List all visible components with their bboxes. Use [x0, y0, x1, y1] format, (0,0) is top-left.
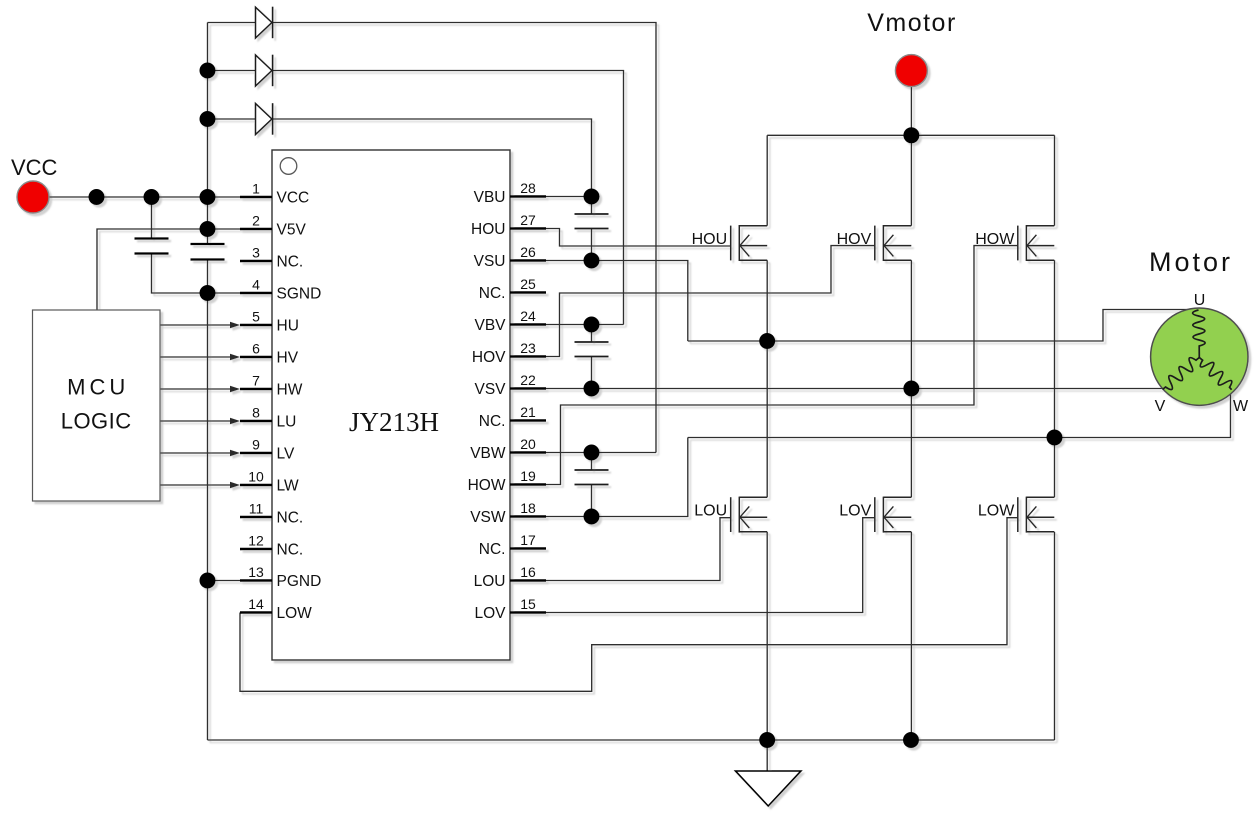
svg-text:NC.: NC.: [277, 542, 304, 559]
svg-text:19: 19: [520, 468, 536, 484]
svg-text:11: 11: [249, 501, 264, 517]
svg-text:VCC: VCC: [277, 190, 310, 207]
svg-text:HOU: HOU: [692, 231, 728, 248]
svg-text:7: 7: [252, 373, 260, 389]
svg-text:V: V: [1155, 398, 1166, 415]
svg-text:NC.: NC.: [277, 510, 304, 527]
svg-text:SGND: SGND: [277, 286, 322, 303]
svg-text:W: W: [1233, 398, 1249, 415]
svg-text:18: 18: [520, 500, 536, 516]
svg-text:LOW: LOW: [978, 503, 1015, 520]
svg-text:HOU: HOU: [471, 221, 505, 238]
svg-text:HV: HV: [277, 350, 299, 367]
svg-text:15: 15: [520, 596, 536, 612]
svg-text:12: 12: [248, 533, 264, 549]
svg-text:LOV: LOV: [474, 605, 506, 622]
svg-text:3: 3: [252, 245, 260, 261]
svg-text:21: 21: [520, 404, 536, 420]
svg-text:V5V: V5V: [277, 222, 307, 239]
svg-text:14: 14: [248, 596, 264, 612]
svg-text:LOGIC: LOGIC: [61, 409, 132, 434]
svg-text:27: 27: [520, 212, 536, 228]
svg-text:VBW: VBW: [470, 445, 506, 462]
svg-text:LOV: LOV: [839, 503, 871, 520]
svg-text:Motor: Motor: [1149, 247, 1233, 277]
svg-text:LW: LW: [277, 478, 299, 495]
svg-text:U: U: [1194, 292, 1206, 309]
svg-text:PGND: PGND: [277, 573, 322, 590]
svg-text:5: 5: [252, 309, 260, 325]
svg-text:NC.: NC.: [277, 254, 304, 271]
svg-text:VSU: VSU: [474, 253, 506, 270]
svg-text:MCU: MCU: [67, 375, 129, 400]
svg-text:HOV: HOV: [837, 231, 872, 248]
svg-text:28: 28: [520, 180, 536, 196]
svg-text:HU: HU: [277, 318, 299, 335]
svg-text:HW: HW: [277, 382, 303, 399]
svg-text:4: 4: [252, 277, 260, 293]
svg-text:1: 1: [252, 181, 260, 197]
svg-text:10: 10: [248, 469, 264, 485]
svg-text:LV: LV: [277, 446, 295, 463]
svg-text:LU: LU: [277, 414, 297, 431]
svg-text:LOU: LOU: [474, 573, 506, 590]
svg-text:2: 2: [252, 213, 260, 229]
svg-text:26: 26: [520, 244, 536, 260]
svg-text:NC.: NC.: [479, 413, 506, 430]
svg-text:VBV: VBV: [474, 317, 506, 334]
svg-text:NC.: NC.: [479, 285, 506, 302]
svg-text:HOV: HOV: [472, 349, 506, 366]
svg-text:20: 20: [520, 436, 536, 452]
svg-text:17: 17: [520, 532, 536, 548]
svg-text:NC.: NC.: [479, 541, 506, 558]
svg-text:24: 24: [520, 308, 536, 324]
svg-text:22: 22: [520, 372, 536, 388]
svg-text:HOW: HOW: [975, 231, 1015, 248]
svg-text:23: 23: [520, 340, 536, 356]
svg-text:VSW: VSW: [470, 509, 506, 526]
svg-text:6: 6: [252, 341, 260, 357]
svg-text:Vmotor: Vmotor: [867, 9, 957, 37]
svg-text:LOU: LOU: [694, 503, 727, 520]
svg-text:VBU: VBU: [474, 189, 506, 206]
svg-text:LOW: LOW: [277, 605, 313, 622]
svg-text:VSV: VSV: [474, 381, 506, 398]
svg-text:HOW: HOW: [468, 477, 506, 494]
svg-text:13: 13: [248, 564, 264, 580]
svg-text:25: 25: [520, 276, 536, 292]
svg-text:JY213H: JY213H: [349, 407, 439, 437]
svg-text:9: 9: [252, 437, 260, 453]
svg-text:8: 8: [252, 405, 260, 421]
svg-text:16: 16: [520, 564, 536, 580]
svg-text:VCC: VCC: [11, 155, 58, 180]
